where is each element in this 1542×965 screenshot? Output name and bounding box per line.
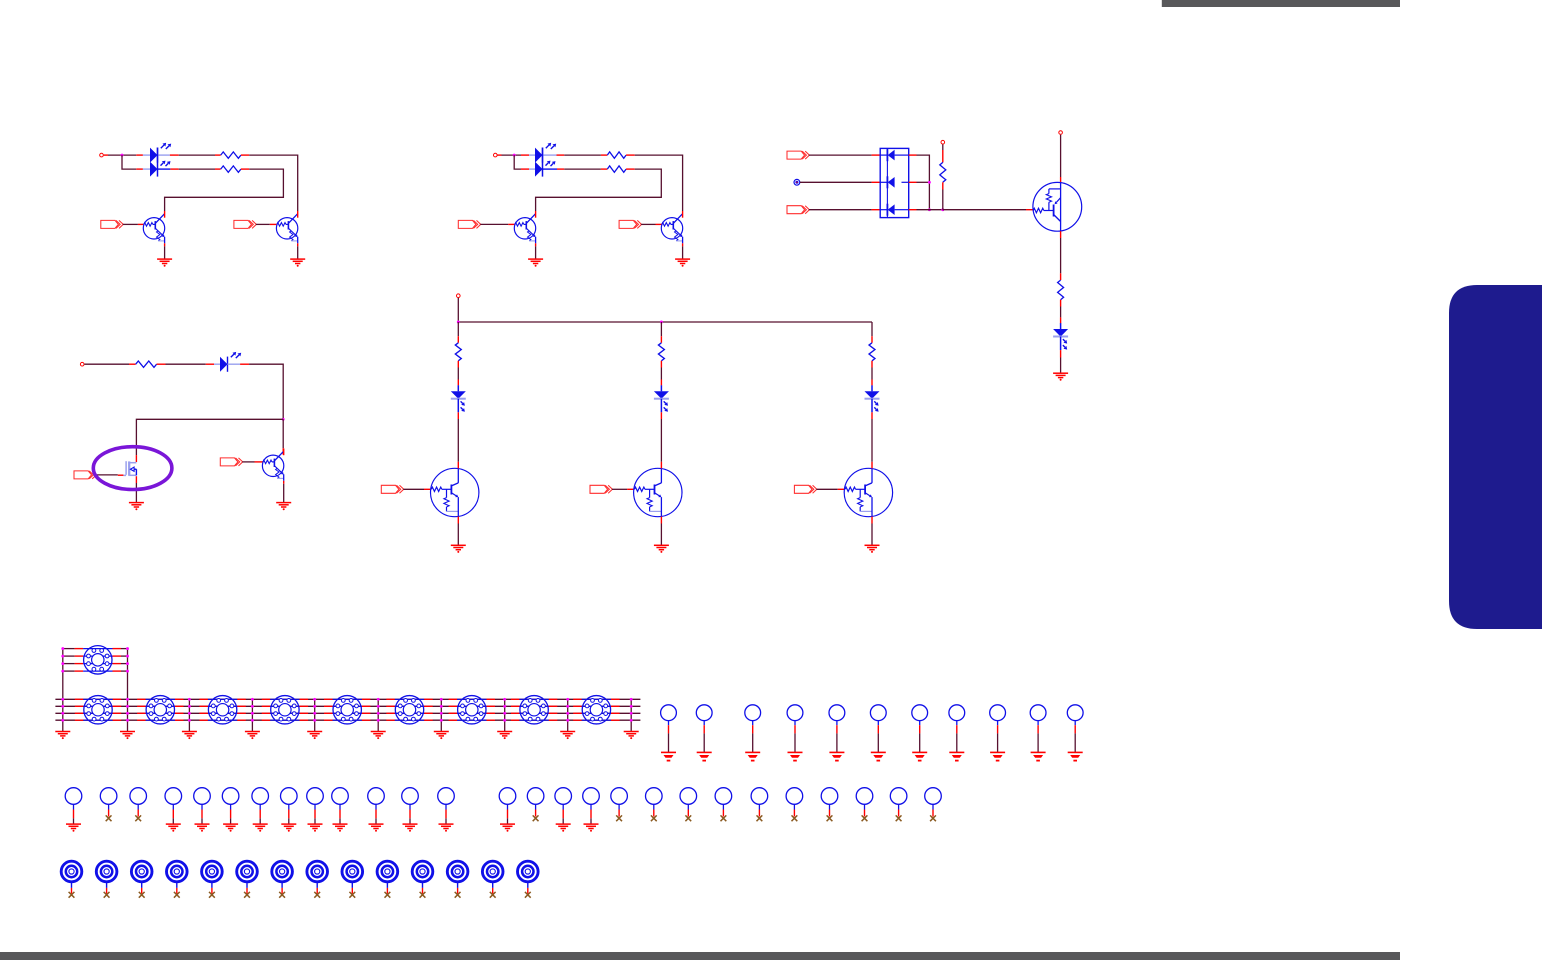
junctions drop 10 — [630, 698, 633, 722]
dual LED D2 second element — [535, 148, 557, 177]
pin stub D4 cathode — [1060, 350, 1062, 357]
wire D2 to R3 — [564, 154, 601, 156]
wire junction to Q6 collector — [282, 419, 284, 448]
ground drop 4 — [245, 732, 260, 740]
port P1 — [101, 220, 123, 228]
wire CN1 line 2 — [63, 655, 128, 657]
ground drop 6 — [371, 732, 386, 740]
via circle V5 — [194, 788, 211, 824]
junction J4 — [928, 208, 931, 211]
ground V14 — [500, 824, 515, 832]
bus wire 4 — [55, 719, 640, 721]
no-connect F14 — [525, 892, 531, 898]
fiducial F12 — [447, 861, 468, 893]
LED D7 — [451, 385, 466, 412]
bus wire 3 — [55, 712, 640, 714]
pin stub Q3 base — [508, 223, 514, 225]
pin stub D3 anode 2 — [872, 181, 881, 183]
no-connect V2 — [106, 815, 112, 821]
junctions drop 3 — [188, 698, 191, 722]
no-connect V15 — [533, 815, 539, 821]
ground Q7 — [451, 545, 466, 553]
resistor R2 — [215, 166, 249, 172]
port P4 — [619, 220, 641, 228]
LED D9 — [865, 385, 880, 412]
ground Q1 — [157, 259, 172, 267]
wire drop 9 — [567, 699, 569, 731]
no-connect V26 — [896, 815, 902, 821]
ground M1 — [129, 503, 144, 511]
wire Q7 emitter to ground — [457, 524, 459, 546]
pad circle E8 — [949, 705, 965, 752]
port P6 — [787, 206, 809, 214]
resistor R1 — [215, 152, 249, 158]
pin stub D9 cathode — [871, 412, 873, 419]
pad circle E9 — [990, 705, 1006, 752]
junction CN1 right 1 — [126, 647, 129, 650]
resistor R3 — [601, 152, 635, 158]
junction CN1 left 2 — [61, 655, 64, 658]
ground V13 — [439, 824, 454, 832]
pad circle E1 — [661, 705, 677, 752]
ground V11 — [369, 824, 384, 832]
ground E11 — [1068, 752, 1083, 760]
pin stub D3 anode 3 — [872, 209, 881, 211]
ground drop 10 — [624, 732, 639, 740]
power node Q5 top — [1059, 131, 1063, 135]
resistor R4 — [601, 166, 635, 172]
wire P4 to Q4 base — [641, 223, 655, 225]
pin stub Q8 base — [627, 488, 634, 490]
bus wire 1 — [55, 698, 640, 700]
pin stub LED3 anode — [521, 154, 535, 156]
wire Q6 emitter to ground — [283, 484, 285, 503]
header bar — [1162, 0, 1400, 7]
no-connect V27 — [930, 815, 936, 821]
fiducial F13 — [482, 861, 503, 893]
ground V12 — [403, 824, 418, 832]
wire D4 to ground — [1060, 358, 1062, 374]
via circle V17 — [583, 788, 600, 824]
ground V7 — [253, 824, 268, 832]
wire drop 6 — [377, 699, 379, 731]
connector CN8 — [458, 696, 486, 724]
pin stub Q5 emitter — [1060, 231, 1062, 238]
side tab — [1449, 285, 1542, 629]
wire CN1 left drop — [62, 649, 64, 732]
junctions drop 9 — [566, 698, 569, 722]
wire R9 to D9 — [871, 368, 873, 380]
LED D8 — [654, 385, 669, 412]
transistor Q9 — [844, 462, 892, 524]
wire bus to R9 — [871, 322, 873, 336]
pin stub D7 anode — [457, 380, 459, 386]
wire bus to R8 — [660, 322, 662, 336]
ground V1 — [66, 824, 81, 832]
diode array U1 box — [880, 148, 909, 217]
ground V9 — [308, 824, 323, 832]
LED D5 — [220, 352, 241, 372]
no-connect F2 — [104, 892, 110, 898]
wire drop 4 — [251, 699, 253, 731]
wire P9 to Q9 base — [816, 488, 837, 490]
ground E5 — [829, 752, 844, 760]
via circle V7 — [252, 788, 269, 824]
fiducial F9 — [342, 861, 363, 893]
junction J2 — [513, 154, 516, 157]
ground D4 — [1053, 373, 1068, 381]
connector CN5 — [271, 696, 299, 724]
wire P10 to M1 gate — [96, 474, 118, 476]
no-connect V21 — [721, 815, 727, 821]
resistor R8 — [658, 336, 664, 367]
pin stub Q5 collector — [1060, 177, 1062, 183]
no-connect F7 — [279, 892, 285, 898]
wire node to LED anode 1 — [108, 154, 136, 156]
highlight ellipse — [93, 447, 172, 490]
via circle V24 — [821, 788, 838, 817]
ground V10 — [333, 824, 348, 832]
wire node to bus — [457, 298, 459, 322]
via circle V20 — [680, 788, 697, 817]
no-connect F9 — [349, 892, 355, 898]
pin stub D3 anode 1 — [872, 154, 881, 156]
connector CN9 pins — [511, 699, 557, 720]
ground E4 — [788, 752, 803, 760]
junctions drop 7 — [440, 698, 443, 722]
pin stub M1 gate — [118, 474, 124, 476]
port P5 — [787, 151, 809, 159]
pin stub Q2 base — [270, 223, 277, 225]
pin stub LED2 anode — [136, 168, 150, 170]
connector CN3 pins — [137, 699, 183, 720]
wire M1 source to ground — [135, 483, 137, 502]
wire R6 to D4 — [1060, 307, 1062, 318]
ground E7 — [912, 752, 927, 760]
wire R5 to net — [942, 190, 944, 210]
pad circle E4 — [787, 705, 803, 752]
connector CN6 pins — [324, 699, 370, 720]
port P11 — [220, 458, 242, 466]
ground drop 7 — [434, 732, 449, 740]
via circle V4 — [165, 788, 182, 824]
pin stub D4 anode — [1060, 317, 1062, 323]
pin stub D8 cathode — [660, 412, 662, 419]
junction J1 — [121, 154, 124, 157]
wire R2 to Q1 collector — [165, 169, 284, 211]
connector CN1 — [84, 646, 112, 674]
pad circle E3 — [745, 705, 761, 752]
no-connect F12 — [455, 892, 461, 898]
resistor R7 — [455, 336, 461, 367]
wire Q2 emitter to ground — [297, 246, 299, 259]
connector CN7 — [395, 696, 423, 724]
fiducial F3 — [131, 861, 152, 893]
wire Q3 emitter to ground — [535, 246, 537, 259]
ground V8 — [281, 824, 296, 832]
connector CN8 pins — [449, 699, 495, 720]
wire D7 to Q7 collector — [457, 419, 459, 462]
junction CN1 left 4 — [61, 670, 64, 673]
transistor Q1 — [143, 211, 164, 246]
fiducial F1 — [61, 861, 82, 893]
dual LED D1 — [150, 143, 171, 163]
wire Q1 emitter to ground — [164, 246, 166, 259]
no-connect V20 — [685, 815, 691, 821]
fiducial F7 — [272, 861, 293, 893]
junctions drop 6 — [377, 698, 380, 722]
pin stub Q9 base — [838, 488, 845, 490]
wire Q8 emitter to ground — [660, 524, 662, 546]
pad circle E10 — [1030, 705, 1046, 752]
wire D9 to Q9 collector — [871, 419, 873, 462]
pad circle E2 — [696, 705, 712, 752]
wire junction to M1 drain — [136, 419, 283, 455]
pin stub LED4 anode — [521, 168, 535, 170]
pin stub Q1 base — [138, 223, 144, 225]
wire D1 to R2 — [179, 168, 215, 170]
fiducial F6 — [237, 861, 258, 893]
fiducial F4 — [167, 861, 188, 893]
resistor R9 — [869, 336, 875, 367]
via circle V21 — [715, 788, 732, 817]
fiducial F5 — [202, 861, 223, 893]
via circle V27 — [925, 788, 942, 817]
ground E10 — [1031, 752, 1046, 760]
transistor Q3 — [514, 211, 535, 246]
pin stub Q6 base — [255, 461, 263, 463]
resistor R10 — [129, 361, 166, 367]
wire D8 to Q8 collector — [660, 419, 662, 462]
wire P1 to Q1 base — [123, 223, 138, 225]
wire P7 to Q7 base — [403, 488, 424, 490]
wire R3 to Q4 collector — [635, 155, 683, 211]
power node circuit2 — [494, 153, 502, 157]
wire drop 10 — [630, 699, 632, 731]
ground drop 5 — [307, 732, 322, 740]
wire R8 to D8 — [660, 368, 662, 380]
via circle V12 — [402, 788, 419, 824]
via circle V13 — [438, 788, 455, 824]
no-connect F4 — [174, 892, 180, 898]
bus wire — [458, 321, 872, 323]
no-connect F10 — [385, 892, 391, 898]
connector CN10 pins — [573, 699, 619, 720]
port P10 — [74, 471, 96, 479]
transistor Q7 — [431, 462, 479, 524]
resistor R6 — [1058, 273, 1064, 306]
connector CN2 pins — [75, 699, 121, 720]
wire P3 to Q3 base — [480, 223, 508, 225]
no-connect F3 — [139, 892, 145, 898]
ground Q2 — [290, 259, 305, 267]
power node bottomleft — [80, 362, 84, 366]
pin stub D1 cathode 2 — [170, 168, 178, 170]
ground Q3 — [528, 259, 543, 267]
wire junction down to LED anode 2 — [122, 155, 136, 169]
pin stub U1 cathode 1 — [909, 154, 917, 156]
pin stub D1 cathode 1 — [170, 154, 179, 156]
via circle V6 — [222, 788, 239, 824]
wire common to R5 foot — [917, 209, 943, 211]
ground V6 — [223, 824, 238, 832]
pin stub Q4 base — [656, 223, 663, 225]
pin connector PC1 — [794, 179, 800, 185]
port P3 — [458, 220, 480, 228]
transistor Q2 — [276, 211, 297, 246]
wire D2 to R4 — [564, 168, 601, 170]
ground Q8 — [654, 545, 669, 553]
junctions drop 4 — [251, 698, 254, 722]
pin stub D7 cathode — [457, 412, 459, 419]
wire bus to R7 — [457, 322, 459, 336]
transistor Q5 — [1033, 182, 1082, 231]
ground drop 3 — [182, 732, 197, 740]
via circle V18 — [611, 788, 628, 817]
wire CN1 line 3 — [63, 663, 128, 665]
wire node to R10 — [84, 363, 129, 365]
pin stub Q6 collector — [282, 448, 284, 454]
pin stub M1 source — [135, 476, 137, 483]
wire CN1 right drop — [127, 649, 129, 732]
wire D1 to R1 — [179, 154, 215, 156]
LED D4 — [1053, 323, 1068, 350]
pin stub M1 drain — [135, 455, 137, 462]
wire drop 8 — [504, 699, 506, 731]
wire U1 row1 to common — [917, 155, 930, 210]
ground Q6 — [276, 503, 291, 511]
via circle V14 — [499, 788, 516, 824]
wire CN1 line 4 — [63, 670, 128, 672]
no-connect F1 — [69, 892, 75, 898]
via circle V15 — [527, 788, 544, 817]
wire drop 5 — [314, 699, 316, 731]
fiducial F10 — [377, 861, 398, 893]
connector CN6 — [333, 696, 361, 724]
junction J6 — [457, 321, 460, 324]
wire junction down to LED anode 4 — [514, 155, 521, 169]
wire node to LED anode 3 — [502, 154, 522, 156]
junctions drop 5 — [313, 698, 316, 722]
wire net to Q5 base — [943, 209, 1026, 211]
wire R1 to Q2 collector — [249, 155, 298, 211]
connector CN5 pins — [262, 699, 308, 720]
wire drop 3 — [188, 699, 190, 731]
via circle V26 — [890, 788, 907, 817]
ground E3 — [745, 752, 760, 760]
via circle V16 — [555, 788, 572, 824]
via circle V1 — [65, 788, 82, 824]
via circle V11 — [368, 788, 385, 824]
pad circle E5 — [829, 705, 845, 752]
wire PC1 to diode array — [800, 181, 872, 183]
pin stub D2 cathode 2 — [557, 168, 564, 170]
fiducial F8 — [307, 861, 328, 893]
wire D5 down to junction — [249, 364, 283, 419]
wire R10 to D5 — [166, 363, 206, 365]
via circle V25 — [856, 788, 873, 817]
wire Q9 emitter to ground — [871, 524, 873, 546]
ground E9 — [990, 752, 1005, 760]
transistor Q6 — [262, 449, 283, 484]
junction CN1 left 1 — [61, 647, 64, 650]
no-connect V19 — [651, 815, 657, 821]
ground V5 — [195, 824, 210, 832]
no-connect F5 — [209, 892, 215, 898]
no-connect F13 — [490, 892, 496, 898]
ground drop 9 — [560, 732, 575, 740]
pin stub U1 cathode 2 — [909, 181, 917, 183]
port P7 — [381, 485, 403, 493]
dual LED D1 second element — [150, 148, 171, 177]
junction CN1 right 3 — [126, 662, 129, 665]
junctions drop 2 — [126, 698, 129, 722]
no-connect V25 — [862, 815, 868, 821]
mosfet M1 — [123, 461, 136, 476]
pin stub U1 cathode 3 — [909, 209, 917, 211]
connector CN9 — [520, 696, 548, 724]
junction CN1 left 3 — [61, 662, 64, 665]
no-connect F6 — [244, 892, 250, 898]
port P2 — [234, 220, 256, 228]
power node circuit1 — [100, 153, 108, 157]
ground E1 — [661, 752, 676, 760]
ground drop 8 — [497, 732, 512, 740]
port P9 — [794, 485, 816, 493]
fiducial F2 — [96, 861, 117, 893]
ground V4 — [166, 824, 181, 832]
fiducial F11 — [412, 861, 433, 893]
wire Q4 emitter to ground — [682, 246, 684, 259]
pin stub D9 anode — [871, 380, 873, 386]
transistor Q4 — [661, 211, 682, 246]
no-connect V3 — [135, 815, 141, 821]
pad circle E11 — [1067, 705, 1083, 752]
connector CN4 — [208, 696, 236, 724]
connector CN10 — [582, 696, 610, 724]
no-connect V24 — [827, 815, 833, 821]
no-connect V22 — [757, 815, 763, 821]
wire P6 to diode array — [809, 209, 872, 211]
no-connect F8 — [314, 892, 320, 898]
wire R7 to D7 — [457, 368, 459, 380]
junction J8 — [282, 418, 285, 421]
junction CN1 right 4 — [126, 670, 129, 673]
connector CN7 pins — [386, 699, 432, 720]
pin stub LED1 anode — [136, 154, 150, 156]
via circle V19 — [646, 788, 663, 817]
wire U1 row2 to common — [917, 181, 930, 183]
diode U1-B — [880, 176, 909, 188]
pin stub D2 cathode 1 — [557, 154, 565, 156]
wire R4 to Q3 collector — [536, 169, 662, 211]
via circle V9 — [307, 788, 324, 824]
via circle V8 — [281, 788, 298, 824]
pin stub D5 cathode — [240, 363, 249, 365]
power node middle — [457, 294, 461, 298]
ground drop 2 — [120, 732, 135, 740]
junction CN1 right 2 — [126, 655, 129, 658]
junction J3 — [928, 181, 931, 184]
junctions drop 8 — [503, 698, 506, 722]
ground E6 — [871, 752, 886, 760]
transistor Q8 — [634, 462, 682, 524]
fiducial F14 — [518, 861, 539, 893]
connector CN3 — [146, 696, 174, 724]
pin stub Q5 base — [1026, 209, 1033, 211]
wire P8 to Q8 base — [612, 488, 627, 490]
ground V17 — [584, 824, 599, 832]
